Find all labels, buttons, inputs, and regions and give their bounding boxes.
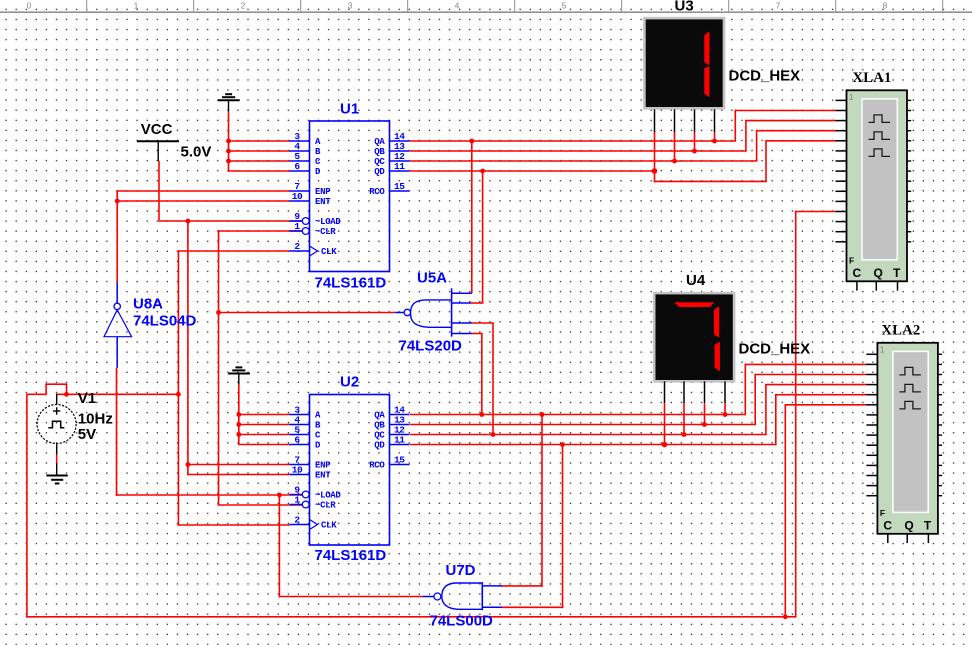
svg-text:4: 4 [455, 1, 460, 11]
svg-text:CLK: CLK [321, 521, 337, 531]
svg-text:10: 10 [292, 465, 303, 476]
wire U2.QC to U5A in3, U4 pin, XLA2 ch3 [410, 323, 867, 437]
junction QC to U5A in3 [491, 432, 496, 437]
svg-text:B: B [315, 147, 321, 157]
svg-text:ENT: ENT [315, 471, 331, 481]
svg-text:~LOAD: ~LOAD [315, 491, 341, 501]
svg-text:C: C [883, 518, 892, 532]
junction QB to U3 [692, 149, 697, 154]
svg-text:F: F [880, 508, 885, 518]
wire ground2 to U2 A B C D inputs [236, 385, 290, 445]
svg-text:U8A: U8A [133, 296, 163, 313]
junction QD at U4 [662, 442, 668, 448]
svg-text:U5A: U5A [417, 270, 447, 287]
svg-text:5: 5 [562, 1, 567, 11]
svg-text:QA: QA [374, 411, 385, 421]
svg-text:2: 2 [294, 515, 300, 526]
wire U1.QA to U5A in1, U3 pin, XLA1 ch1 [410, 110, 836, 294]
ruler [0, 0, 972, 12]
pin U2.14 QA [390, 414, 410, 416]
instrument XLA1 logic analyser [836, 70, 912, 291]
svg-text:C: C [315, 431, 321, 441]
pin U5A in2 [452, 302, 471, 304]
svg-text:F: F [849, 255, 854, 265]
svg-text:U2: U2 [340, 374, 359, 391]
svg-text:2: 2 [241, 1, 246, 11]
svg-text:10: 10 [292, 191, 303, 202]
XLA2 C Q T pins [887, 534, 889, 543]
svg-text:6: 6 [294, 161, 300, 172]
pin U1.15 RCO [390, 190, 410, 192]
pin U8A input [116, 337, 118, 368]
svg-text:QC: QC [374, 157, 385, 167]
svg-text:C: C [853, 266, 862, 280]
pin U3-1 [654, 109, 656, 132]
pin U3-2 [674, 109, 676, 132]
U4 digit segment b [714, 306, 719, 338]
junction U1.B [226, 149, 231, 154]
svg-text:8: 8 [883, 1, 888, 11]
pin U2.2 CLK [290, 524, 310, 526]
XLA1 C Q T pins [856, 281, 858, 290]
svg-text:XLA2: XLA2 [882, 322, 921, 338]
svg-text:A: A [315, 137, 321, 147]
pin U4-3 [704, 381, 706, 403]
pin U1.3 A [290, 140, 310, 142]
wire U2.QA to U5A in4, U7D inA, U4 pin, XLA2 ch1 [410, 334, 867, 587]
svg-text:5V: 5V [78, 426, 96, 443]
wire U5A output to U1 ~CLR and U2 ~CLR [216, 230, 395, 505]
wire U7D output to U2 ~LOAD and U8A input [116, 368, 423, 597]
pin U1.14 QA [390, 140, 410, 142]
junction U5A out [216, 310, 221, 315]
svg-text:~LOAD: ~LOAD [315, 217, 341, 227]
pin U2.7 ENP [290, 464, 310, 466]
svg-text:U3: U3 [675, 0, 694, 15]
pin U3-3 [694, 109, 696, 132]
junction VCC branch [186, 219, 191, 224]
svg-text:ENP: ENP [315, 187, 331, 197]
pin U1.11 QD [390, 170, 410, 172]
svg-text:QA: QA [374, 137, 385, 147]
XLA2 channel pins [866, 353, 877, 355]
svg-text:QD: QD [374, 167, 385, 177]
svg-text:QB: QB [374, 421, 385, 431]
wire U2.QB to U4 pin, XLA2 ch2 [410, 374, 867, 427]
svg-text:V1: V1 [78, 390, 96, 407]
svg-text:C: C [315, 157, 321, 167]
wire VCC to U1 ~LOAD and U2 ENP ENT [158, 161, 302, 475]
U3 digit segment c [704, 66, 709, 97]
svg-text:RCO: RCO [369, 187, 385, 197]
pin U5A in4 [452, 333, 472, 335]
V1 square wave glyph [48, 421, 64, 428]
XLA1 waveform icon [869, 115, 891, 123]
svg-text:A: A [315, 411, 321, 421]
pin U1.13 QB [390, 150, 410, 152]
junction U2 ~LOAD branch [277, 493, 282, 498]
pin U4-2 [683, 381, 685, 403]
U1 body [310, 121, 390, 272]
pin U1.12 QC [390, 160, 410, 162]
wire U1.QC to U3 pin, XLA1 ch3 [410, 130, 836, 164]
junction U2.A [236, 412, 241, 417]
junction U1.C [226, 159, 231, 164]
wire ground1 to U1 A B C D inputs [226, 112, 290, 171]
pin U1.6 D [290, 170, 310, 172]
junction QA to U5A in4 [479, 412, 484, 417]
svg-text:Q: Q [904, 518, 913, 532]
svg-text:Q: Q [874, 266, 883, 280]
pin U8A output bubble [114, 303, 120, 309]
pin U2.10 ENT [290, 474, 310, 476]
junction QA to U3 [712, 139, 717, 144]
svg-text:11: 11 [394, 161, 405, 172]
wire V1 clock distribution [26, 211, 866, 619]
svg-text:74LS161D: 74LS161D [315, 547, 387, 564]
junction bottom rail [783, 614, 788, 619]
svg-text:ENP: ENP [315, 461, 331, 471]
svg-text:74LS161D: 74LS161D [315, 275, 387, 292]
U3 digit segment b [704, 31, 709, 65]
pin U2.6 D [290, 444, 310, 446]
svg-text:DCD_HEX: DCD_HEX [739, 340, 811, 357]
pin U1.9 ~LOAD [290, 220, 303, 222]
pin U7D inB [482, 606, 502, 608]
pin U2.12 QC [390, 434, 410, 436]
junction U2.C [236, 432, 241, 437]
svg-text:1: 1 [849, 93, 854, 102]
pin U2.9 ~LOAD [290, 494, 303, 496]
svg-text:1: 1 [880, 345, 885, 354]
pin U5A output bubble [404, 309, 410, 315]
XLA2 waveform icon [899, 367, 921, 375]
junction QC to U3 [672, 159, 677, 164]
svg-text:1: 1 [294, 495, 300, 506]
nand U5A 74LS20D [395, 270, 472, 355]
junction QC at U4 [682, 432, 687, 437]
pin U1.2 CLK [290, 250, 310, 252]
junction QA to U5A [469, 139, 474, 144]
pin U2.4 B [290, 424, 310, 426]
svg-text:15: 15 [394, 455, 405, 466]
pin U2.3 A [290, 414, 310, 416]
VCC power symbol 5.0V [137, 121, 211, 161]
svg-text:D: D [315, 167, 321, 177]
wire U1.QB to U3 pin, XLA1 ch2 [410, 120, 836, 154]
junction V1 output [64, 392, 69, 397]
pin U3-4 [714, 109, 716, 132]
svg-text:1: 1 [294, 221, 300, 232]
junction QD to U5A [480, 169, 485, 174]
pin U2.11 QD [390, 444, 410, 446]
svg-text:U7D: U7D [446, 562, 476, 579]
display U4 DCD_HEX showing 7 [654, 272, 810, 403]
svg-text:B: B [315, 421, 321, 431]
svg-text:RCO: RCO [369, 461, 385, 471]
svg-text:XLA1: XLA1 [853, 70, 892, 86]
svg-text:74LS20D: 74LS20D [399, 338, 463, 355]
inverter U8A 74LS04D [104, 282, 197, 368]
svg-text:CLK: CLK [321, 247, 337, 257]
pin U1.7 ENP [290, 190, 310, 192]
pin U4-1 [664, 381, 666, 403]
pin U2.1 ~CLR [290, 504, 303, 506]
source V1 clock 10Hz 5V [37, 390, 113, 476]
svg-text:T: T [924, 518, 932, 532]
junction QD to U7D inB [560, 442, 565, 447]
svg-text:QD: QD [374, 441, 385, 451]
pin U7D output bubble [434, 593, 441, 600]
U4 digit segment a [674, 302, 714, 307]
svg-text:~CLR: ~CLR [315, 501, 336, 511]
junction U2.B [236, 422, 241, 427]
svg-text:11: 11 [394, 435, 405, 446]
svg-text:QC: QC [374, 431, 385, 441]
nand U7D 74LS00D [422, 562, 502, 630]
counter U1 74LS161D [290, 101, 410, 292]
V1 plus sign [53, 410, 60, 412]
svg-text:74LS00D: 74LS00D [430, 613, 494, 630]
svg-text:2: 2 [294, 241, 300, 252]
svg-text:VCC: VCC [141, 121, 173, 138]
svg-text:DCD_HEX: DCD_HEX [729, 67, 801, 84]
pin U4-4 [724, 381, 726, 403]
junction QD at U3 [652, 168, 658, 174]
junction CLK tap [176, 392, 181, 397]
pin U1.1 ~CLR [290, 230, 303, 232]
pin U2.13 QB [390, 424, 410, 426]
XLA1 channel pins [836, 99, 847, 101]
ground 1 above U1 [218, 94, 240, 111]
pin U7D inA [482, 585, 502, 587]
junction QA at U4 [723, 412, 728, 417]
svg-text:5.0V: 5.0V [181, 143, 212, 160]
svg-text:3: 3 [348, 1, 353, 11]
U4 digit segment c [715, 342, 720, 372]
svg-text:ENT: ENT [315, 197, 331, 207]
ground V1 [46, 476, 67, 484]
display U3 DCD_HEX showing 1 [644, 0, 800, 132]
svg-text:1: 1 [134, 1, 139, 11]
junction U1.A [226, 139, 231, 144]
junction QA to U7D inA [540, 412, 545, 417]
wire left rail to bottom [26, 394, 28, 618]
svg-text:74LS04D: 74LS04D [133, 313, 197, 330]
svg-text:D: D [315, 441, 321, 451]
svg-text:15: 15 [394, 181, 405, 192]
ground 2 above U2 [228, 367, 250, 384]
svg-text:T: T [893, 266, 901, 280]
pin V1 minus terminal [56, 444, 58, 455]
pin U1.5 C [290, 160, 310, 162]
svg-text:U4: U4 [686, 272, 706, 289]
svg-text:0: 0 [27, 1, 32, 11]
wire U1.QD to U5A in2, U3 pin, XLA1 ch4 [410, 131, 836, 303]
svg-text:~CLR: ~CLR [315, 227, 336, 237]
junction QB at U4 [702, 422, 707, 427]
counter U2 74LS161D [290, 374, 410, 564]
pin U5A in3 [452, 322, 472, 324]
svg-text:6: 6 [294, 435, 300, 446]
junction U1.ENT [115, 199, 120, 204]
instrument XLA2 logic analyser [866, 322, 942, 543]
svg-text:U1: U1 [340, 101, 359, 118]
pin U5A in1 [452, 292, 472, 294]
pin U1.4 B [290, 150, 310, 152]
U2 body [310, 395, 390, 546]
pin U1.10 ENT [290, 200, 310, 202]
pin U2.15 RCO [390, 464, 410, 466]
svg-text:QB: QB [374, 147, 385, 157]
pin V1 plus terminal [56, 394, 58, 405]
svg-text:7: 7 [776, 1, 781, 11]
wire U8A output to U1 ENP ENT [115, 190, 290, 282]
junction U2.ENP [186, 462, 191, 467]
pin U2.5 C [290, 434, 310, 436]
wire U2.QD to U7D inB, U4 pin, XLA2 ch4 [410, 394, 867, 608]
